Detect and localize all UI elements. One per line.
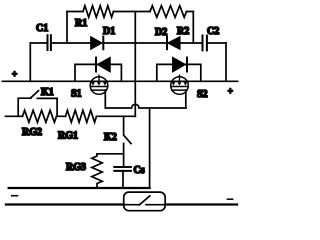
terminal - right: [228, 198, 233, 200]
wire S1 gate lead: [104, 90, 106, 108]
MOSFET S2: [171, 75, 208, 100]
svg-text:RG2: RG2: [22, 127, 42, 138]
svg-text:+: +: [228, 86, 233, 96]
svg-text:+: +: [12, 69, 17, 79]
wire bottom rail A: [9, 187, 150, 189]
diode D2: [155, 27, 180, 49]
resistor RG3: [66, 154, 102, 188]
resistor RG2: [22, 110, 57, 138]
wire C1 left drop: [29, 43, 31, 81]
body diode of S1: [75, 58, 121, 82]
svg-text:C1: C1: [36, 23, 48, 34]
resistor R2: [150, 6, 187, 18]
capacitor C1: [30, 23, 51, 50]
resistor R1: [83, 6, 114, 18]
svg-text:D1: D1: [103, 26, 115, 37]
switch K2: [104, 116, 131, 167]
svg-text:D2: D2: [155, 27, 167, 38]
wire main dc rail: [3, 80, 238, 82]
svg-text:S1: S1: [71, 89, 82, 100]
capacitor C2: [203, 26, 227, 50]
svg-text:S2: S2: [197, 89, 208, 100]
switch S3 contact: [124, 196, 166, 205]
svg-text:RG1: RG1: [58, 131, 78, 142]
resistor RG1: [58, 110, 97, 141]
diode D1: [91, 26, 115, 49]
svg-text:R1: R1: [75, 18, 87, 29]
wire gate bus with hop: [106, 104, 186, 108]
svg-text:K2: K2: [104, 132, 117, 143]
wire gate bus to bottom rail: [149, 108, 151, 188]
wire gate drive line: [6, 115, 136, 117]
body diode of S2: [157, 58, 201, 82]
svg-text:RG3: RG3: [66, 162, 86, 173]
wire right drop from R2: [192, 12, 194, 44]
switch S3 enclosure: [124, 192, 166, 211]
svg-text:K1: K1: [41, 87, 54, 98]
wire top rail: [67, 11, 193, 13]
MOSFET S1: [71, 75, 108, 99]
wire bottom rail B left: [6, 203, 124, 205]
capacitor Cs: [114, 165, 144, 188]
wire diode row: [51, 42, 203, 44]
svg-text:C2: C2: [207, 26, 219, 37]
wire C2 right drop: [225, 43, 227, 81]
wire left drop from R1: [66, 12, 68, 44]
svg-text:R2: R2: [177, 26, 189, 37]
switch K1: [18, 87, 57, 116]
wire bottom rail B right: [165, 203, 237, 205]
wire RG3 tap: [97, 153, 124, 155]
wire S2 gate lead: [185, 90, 187, 108]
wire center vertical: [134, 12, 136, 117]
svg-text:Cs: Cs: [134, 165, 145, 176]
terminal - left: [12, 195, 18, 197]
